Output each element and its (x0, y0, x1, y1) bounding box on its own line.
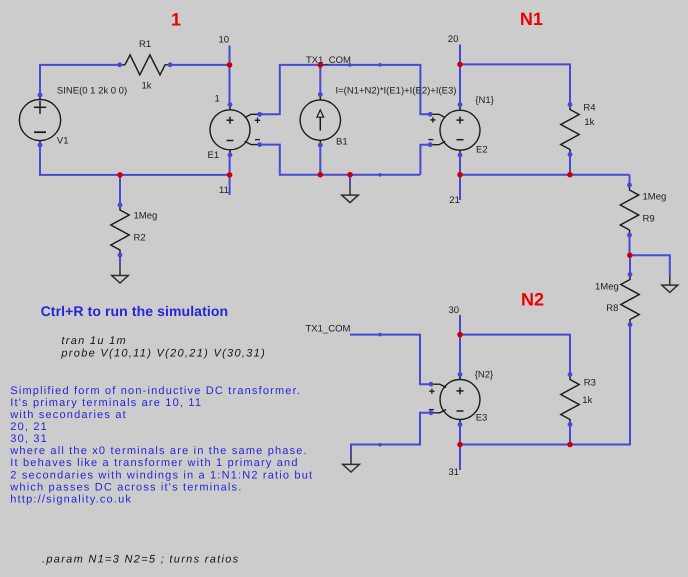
svg-text:1k: 1k (142, 81, 152, 92)
svg-text:20: 20 (448, 34, 459, 45)
svg-text:1Meg: 1Meg (595, 281, 619, 292)
wire node 10 to E1 top pin (229, 65, 231, 105)
svg-text:with secondaries at: with secondaries at (9, 409, 127, 421)
svg-text:V1: V1 (57, 136, 69, 147)
junction node 31 at E3 (457, 442, 463, 448)
node 11 stub (229, 175, 231, 195)
wire R9 bottom to junction (629, 235, 631, 255)
wire E2 - input branch (420, 145, 430, 175)
wire R9 junction to right ground (630, 255, 670, 275)
wire joint dots (348, 63, 382, 447)
svg-text:I=(N1+N2)*I(E1)+I(E2)+I(E3): I=(N1+N2)*I(E1)+I(E2)+I(E3) (336, 86, 457, 97)
ground (below R2) (112, 265, 129, 283)
svg-text:.param N1=3 N2=5 ; turns ratio: .param N1=3 N2=5 ; turns ratios (42, 554, 239, 566)
wire E3 bottom pin to node 31 (459, 425, 461, 445)
svg-text:{N1}: {N1} (475, 95, 494, 106)
svg-text:E1: E1 (208, 150, 220, 161)
svg-text:R3: R3 (584, 378, 596, 389)
junction node 11 at E1 (227, 172, 233, 178)
svg-text:1: 1 (215, 94, 220, 105)
junction R9/R8/ground (627, 252, 633, 258)
controlled source E2 (428, 102, 480, 157)
svg-text:http://signality.co.uk: http://signality.co.uk (10, 493, 132, 505)
svg-text:31: 31 (449, 467, 460, 478)
resistor R1 (117, 55, 172, 75)
junction node 31 at R3 (567, 442, 573, 448)
node 20 stub (459, 45, 461, 65)
svg-text:TX1_COM: TX1_COM (306, 55, 351, 66)
ground (common rail, below B1) (342, 185, 359, 203)
svg-text:Simplified form of non-inducti: Simplified form of non-inductive DC tran… (10, 385, 301, 397)
svg-text:which passes DC across it's te: which passes DC across it's terminals. (9, 481, 242, 493)
wire B1 bottom to common rail (319, 145, 321, 175)
wire node 30 to R3 top (460, 335, 570, 375)
svg-text:1Meg: 1Meg (134, 210, 158, 221)
svg-text:R8: R8 (606, 303, 618, 314)
wire V1 top to R1 (net 10) (40, 65, 120, 95)
wire common rail to ground (349, 175, 351, 185)
node 30 stub (459, 315, 461, 335)
svg-text:30, 31: 30, 31 (10, 433, 48, 445)
node 31 stub (459, 445, 461, 471)
svg-text:21: 21 (449, 195, 460, 206)
svg-text:11: 11 (219, 185, 229, 196)
controlled source E3 (429, 372, 480, 427)
wire TX1_COM to B1 top (319, 65, 321, 95)
wire R2 bottom to ground (119, 255, 121, 265)
svg-text:1: 1 (171, 10, 181, 30)
ground (right, below R9 junction) (662, 275, 678, 293)
svg-text:R1: R1 (139, 39, 151, 50)
wire R8 bottom to node 31 rail (460, 325, 630, 445)
svg-text:It's primary terminals are 10,: It's primary terminals are 10, 11 (10, 397, 202, 409)
resistor R3 (561, 372, 579, 427)
wire node 30 to E3 top pin (459, 335, 461, 375)
svg-text:N1: N1 (520, 9, 543, 29)
junction common rail at ground (347, 172, 353, 178)
wire E3 - input to N2 ground branch (351, 413, 431, 455)
junction node 30 (457, 332, 463, 338)
svg-text:E3: E3 (476, 413, 488, 424)
junction TX1_COM at B1 top (318, 62, 324, 68)
controlled source E1 (210, 102, 262, 157)
svg-text:2 secondaries with windings in: 2 secondaries with windings in a 1:N1:N2… (10, 469, 313, 481)
voltage source V1 (19, 93, 60, 148)
wire R4 bottom to node 21 rail (569, 155, 571, 175)
resistor R8 (mirrored) (621, 272, 639, 327)
svg-text:1Meg: 1Meg (643, 192, 667, 203)
svg-text:R2: R2 (134, 233, 146, 244)
wire E2 bottom pin to node 21 (459, 155, 461, 175)
resistor R2 (111, 203, 129, 258)
svg-text:{N2}: {N2} (475, 369, 494, 380)
svg-text:30: 30 (449, 305, 460, 316)
svg-text:R4: R4 (583, 102, 595, 113)
comment block (9, 385, 313, 506)
wire node 11 to R2 (119, 175, 121, 205)
junction node 10 (227, 62, 233, 68)
wire node 20 to R4 top (460, 64, 570, 104)
wire R1 right to node 10 (170, 64, 229, 66)
svg-text:10: 10 (219, 35, 230, 46)
wire node 21 rail to R9 top (629, 175, 631, 185)
node 10 stub (229, 46, 231, 65)
svg-text:SINE(0 1 2k 0 0): SINE(0 1 2k 0 0) (57, 86, 127, 97)
svg-text:R9: R9 (643, 213, 655, 224)
ground (N2 section) (343, 455, 360, 473)
junction node 11 at R2 (117, 172, 123, 178)
wire E1 - output to bottom common rail (260, 145, 421, 175)
behavioural current source B1 (300, 92, 340, 148)
wire TX1_COM N2 to E3 + input (350, 335, 431, 385)
wire E1 + output to TX1_COM rail and E2 + input (260, 65, 431, 114)
wire E1 bottom pin to node 11 (229, 155, 231, 175)
wire junction to R8 top (629, 255, 631, 274)
junction node 20 (457, 62, 463, 68)
svg-text:20, 21: 20, 21 (10, 421, 48, 433)
svg-text:tran 1u 1m: tran 1u 1m (61, 335, 127, 347)
node 21 stub (459, 175, 461, 200)
svg-text:Ctrl+R to run the simulation: Ctrl+R to run the simulation (41, 303, 229, 319)
svg-text:TX1_COM: TX1_COM (306, 324, 351, 335)
junction node 21 at R4 (567, 172, 573, 178)
svg-text:where all the x0 terminals are: where all the x0 terminals are in the sa… (9, 445, 308, 457)
wire node 21 rail to R4 and R9 (460, 174, 630, 176)
svg-text:probe V(10,11) V(20,21) V(30,3: probe V(10,11) V(20,21) V(30,31) (60, 347, 266, 359)
wire R3 bottom to node 31 rail (569, 424, 571, 444)
svg-text:1k: 1k (584, 117, 594, 128)
junction common rail at B1 bottom (318, 172, 324, 178)
wire V1 bottom rail (net 11) (40, 145, 230, 175)
svg-text:E2: E2 (476, 145, 488, 156)
svg-text:It behaves like a transformer: It behaves like a transformer with 1 pri… (10, 457, 298, 469)
svg-text:B1: B1 (336, 137, 348, 148)
svg-text:1k: 1k (582, 395, 592, 406)
wire node 20 to E2 top pin (459, 64, 461, 104)
resistor R9 (620, 183, 638, 238)
junction node 21 at E2 (457, 172, 463, 178)
resistor R4 (561, 102, 579, 157)
svg-text:N2: N2 (521, 289, 544, 309)
